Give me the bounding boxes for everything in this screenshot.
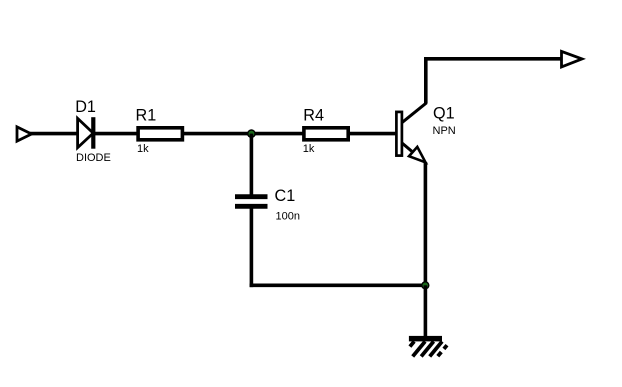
ground [409,336,447,357]
wire junction 2 to ground [424,285,428,338]
output port arrow [562,51,583,67]
svg-text:1k: 1k [303,143,315,155]
capacitor C1 [235,197,268,207]
wire input to diode [30,132,78,136]
resistor R1 [138,128,182,140]
wire top horizontal to output [424,57,562,61]
wire junction down to C1 [250,134,254,195]
wire bottom horizontal [250,283,426,287]
svg-text:1k: 1k [137,143,149,155]
wire C1 down [250,208,254,287]
wire diode to R1 [93,132,138,136]
svg-text:Q1: Q1 [433,105,455,123]
wire emitter vertical [424,162,428,287]
wire R4 to Q1 base [350,132,396,136]
input port arrow [17,127,32,141]
svg-text:C1: C1 [275,187,296,205]
node junction 1 [247,129,256,138]
svg-text:R4: R4 [303,107,324,125]
transistor Q1 [396,103,426,163]
wire collector vertical [424,57,428,104]
svg-text:D1: D1 [75,98,96,116]
resistor R4 [304,128,348,140]
diode D1 [78,117,94,149]
svg-text:DIODE: DIODE [76,152,111,164]
svg-text:R1: R1 [136,107,157,125]
node junction 2 [421,281,429,289]
svg-text:100n: 100n [276,210,300,222]
wire R1 to R4 [184,132,304,136]
svg-text:NPN: NPN [433,125,456,137]
